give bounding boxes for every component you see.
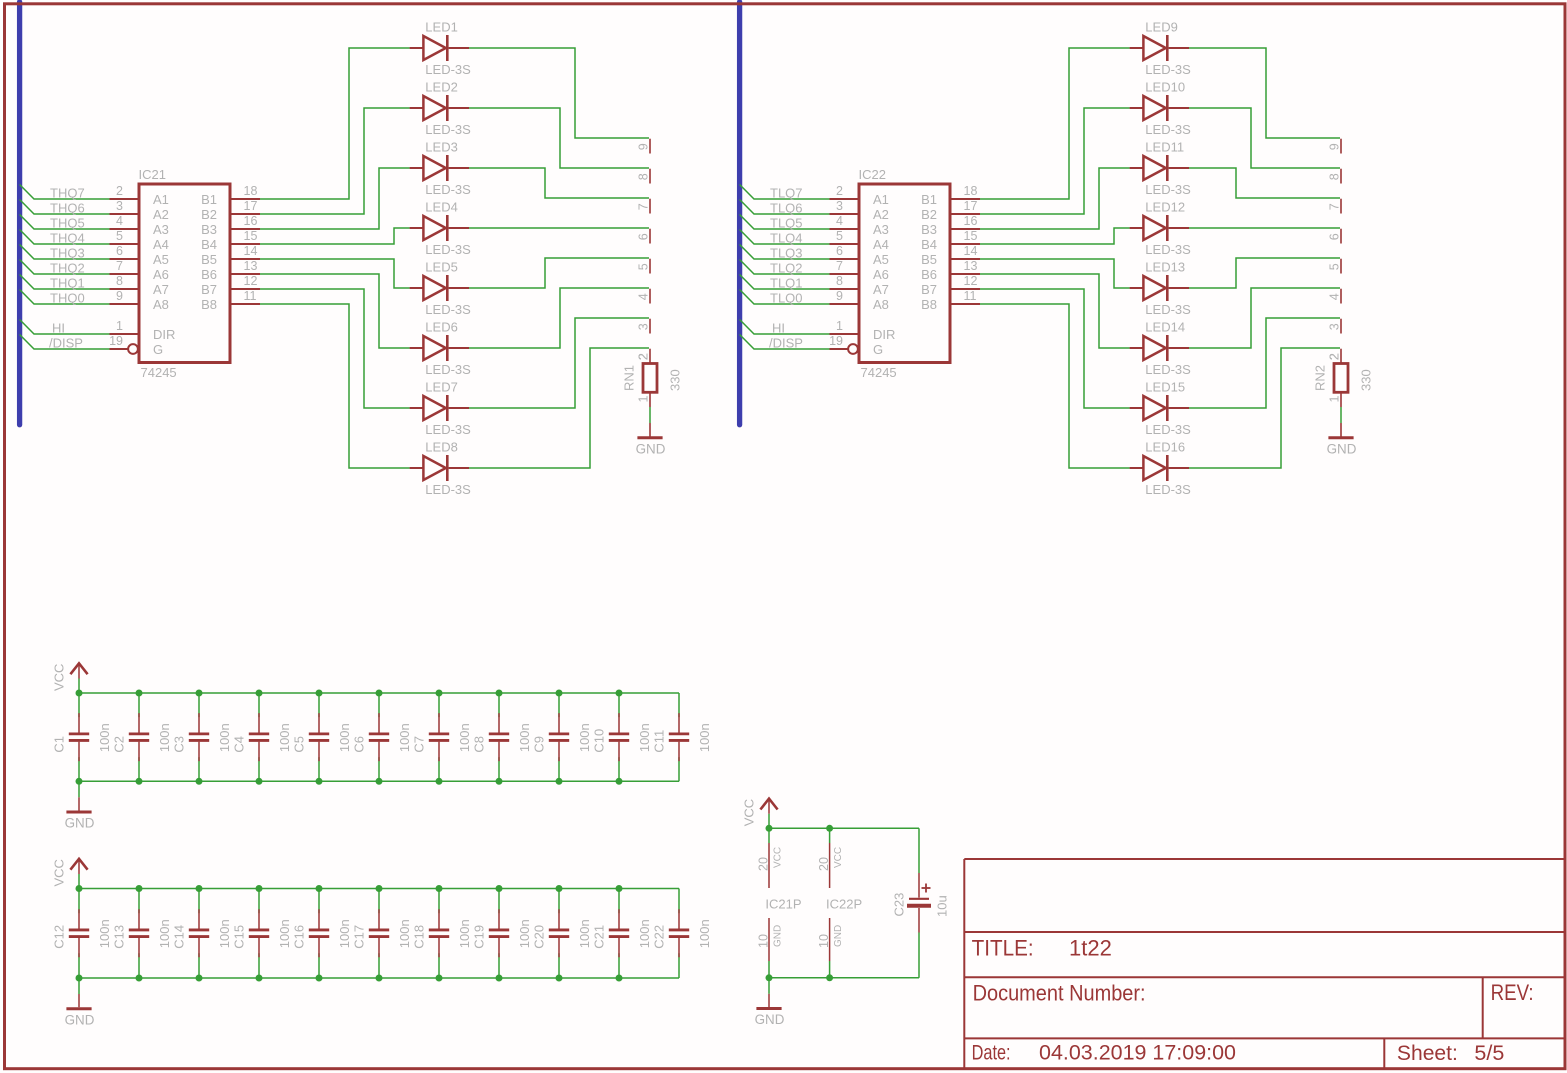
LED diode LED3 (410, 155, 469, 181)
svg-text:5: 5 (1328, 263, 1342, 270)
wire IC21 pin 16 to LED3 anode (260, 168, 410, 229)
svg-text:B6: B6 (201, 267, 217, 282)
svg-text:B1: B1 (921, 192, 937, 207)
svg-text:A6: A6 (153, 267, 169, 282)
ground symbol bank C12 (65, 1009, 95, 1028)
svg-text:18: 18 (244, 184, 258, 198)
ground symbol below RN1 (636, 438, 666, 457)
svg-text:2: 2 (116, 184, 123, 198)
wire leads of capacitor C9 (558, 693, 560, 717)
svg-text:LED3: LED3 (425, 140, 458, 155)
LED diode LED4 (410, 215, 469, 241)
wire IC22 pin 15 to LED12 anode (980, 228, 1130, 244)
svg-text:12: 12 (244, 274, 258, 288)
capacitor C10 100n (609, 713, 629, 761)
svg-text:5: 5 (116, 229, 123, 243)
wire LED9 cathode to RN2 pin 9 (1189, 48, 1340, 138)
svg-text:10: 10 (817, 934, 831, 948)
svg-text:C10: C10 (592, 729, 607, 753)
svg-text:TLQ2: TLQ2 (770, 261, 803, 276)
svg-text:Sheet:: Sheet: (1397, 1041, 1458, 1065)
svg-text:C8: C8 (472, 736, 487, 753)
svg-text:B3: B3 (201, 222, 217, 237)
svg-text:A4: A4 (153, 237, 169, 252)
svg-text:LED-3S: LED-3S (425, 422, 471, 437)
capacitor C18 100n (429, 909, 449, 957)
svg-text:3: 3 (116, 199, 123, 213)
wire net TLQ0 from bus to IC22 pin 9 (740, 290, 830, 305)
svg-text:TLQ7: TLQ7 (770, 186, 803, 201)
svg-text:C9: C9 (532, 736, 547, 753)
wire IC22 pin 16 to LED11 anode (980, 168, 1130, 229)
wire net TLQ3 from bus to IC22 pin 6 (740, 245, 830, 260)
svg-text:LED15: LED15 (1145, 380, 1185, 395)
capacitor C14 100n (189, 909, 209, 957)
wire leads of capacitor C20 (558, 889, 560, 914)
wire net TLQ6 from bus to IC22 pin 3 (740, 200, 830, 215)
wire LED15 cathode to RN2 pin 3 (1189, 318, 1340, 408)
svg-text:10u: 10u (935, 895, 950, 917)
svg-text:B7: B7 (201, 282, 217, 297)
wire IC22 pin 18 to LED9 anode (980, 48, 1130, 199)
wire LED11 cathode to RN2 pin 7 (1189, 168, 1340, 198)
svg-text:4: 4 (637, 293, 651, 300)
svg-text:THQ0: THQ0 (50, 291, 85, 306)
svg-text:B4: B4 (921, 237, 937, 252)
svg-text:VCC: VCC (773, 847, 784, 868)
svg-text:LED-3S: LED-3S (1145, 362, 1191, 377)
svg-text:100n: 100n (397, 919, 412, 948)
wire leads of capacitor C16 (318, 889, 320, 914)
svg-text:15: 15 (244, 229, 258, 243)
svg-text:C11: C11 (652, 730, 667, 753)
wire net THQ3 from bus to IC21 pin 6 (20, 245, 110, 260)
svg-text:B7: B7 (921, 282, 937, 297)
svg-text:LED-3S: LED-3S (1145, 302, 1191, 317)
svg-text:A3: A3 (153, 222, 169, 237)
svg-text:3: 3 (637, 323, 651, 330)
svg-text:100n: 100n (457, 723, 472, 752)
svg-text:7: 7 (637, 203, 651, 210)
svg-text:74245: 74245 (141, 365, 177, 380)
wire IC21 pin 15 to LED4 anode (260, 228, 410, 244)
svg-text:13: 13 (964, 259, 978, 273)
svg-text:100n: 100n (637, 919, 652, 948)
svg-text:B3: B3 (921, 222, 937, 237)
svg-text:GND: GND (773, 925, 784, 947)
wire leads of capacitor C21 (618, 889, 620, 914)
svg-text:7: 7 (1328, 203, 1342, 210)
svg-text:8: 8 (637, 173, 651, 180)
svg-text:LED-3S: LED-3S (1145, 242, 1191, 257)
svg-text:LED10: LED10 (1145, 80, 1185, 95)
svg-text:10: 10 (756, 934, 770, 948)
svg-text:IC22: IC22 (859, 167, 886, 182)
LED diode LED13 (1130, 275, 1189, 301)
svg-text:C20: C20 (532, 925, 547, 949)
svg-text:100n: 100n (577, 723, 592, 752)
svg-text:C3: C3 (172, 736, 187, 753)
capacitor C19 100n (489, 909, 509, 957)
svg-text:100n: 100n (217, 919, 232, 948)
wire LED16 cathode to RN2 pin 2 (1189, 348, 1340, 468)
LED diode LED16 (1130, 455, 1189, 481)
svg-text:/DISP: /DISP (49, 336, 83, 351)
svg-text:8: 8 (836, 274, 843, 288)
LED diode LED9 (1130, 35, 1189, 61)
svg-text:Date:: Date: (972, 1041, 1011, 1065)
capacitor C12 100n (69, 909, 89, 957)
svg-text:LED-3S: LED-3S (1145, 422, 1191, 437)
LED diode LED12 (1130, 215, 1189, 241)
wire leads of capacitor C10 (618, 693, 620, 717)
svg-text:TLQ1: TLQ1 (770, 276, 803, 291)
svg-text:B5: B5 (921, 252, 937, 267)
power VCC symbol bank C12 (51, 859, 87, 889)
LED diode LED7 (410, 395, 469, 421)
capacitor C15 100n (249, 909, 269, 957)
wire leads of capacitor C7 (438, 693, 440, 717)
wire net TLQ1 from bus to IC22 pin 8 (740, 275, 830, 290)
svg-text:B8: B8 (921, 297, 937, 312)
svg-text:GND: GND (65, 816, 95, 831)
capacitor C4 100n (249, 713, 269, 761)
svg-text:GND: GND (833, 925, 844, 947)
svg-text:C1: C1 (52, 736, 67, 753)
svg-text:100n: 100n (337, 919, 352, 948)
svg-text:C5: C5 (292, 736, 307, 753)
svg-text:A8: A8 (153, 297, 169, 312)
svg-text:A5: A5 (873, 252, 889, 267)
svg-text:VCC: VCC (741, 799, 756, 826)
svg-text:1: 1 (116, 319, 123, 333)
svg-text:LED-3S: LED-3S (425, 302, 471, 317)
svg-text:C22: C22 (652, 925, 667, 949)
junction dots top rail (76, 885, 623, 892)
power VCC symbol power section (741, 798, 777, 828)
svg-text:13: 13 (244, 259, 258, 273)
svg-text:17: 17 (964, 199, 978, 213)
svg-text:LED1: LED1 (425, 20, 458, 35)
svg-text:A7: A7 (873, 282, 889, 297)
wire leads of capacitor C3 (198, 693, 200, 717)
svg-text:A2: A2 (873, 207, 889, 222)
capacitor C16 100n (309, 909, 329, 957)
wire LED7 cathode to RN1 pin 3 (469, 318, 649, 408)
svg-text:B6: B6 (921, 267, 937, 282)
bus THQ[0..7] left (17, 2, 22, 425)
svg-text:17: 17 (244, 199, 258, 213)
wire IC22 pin 13 to LED14 anode (980, 274, 1130, 348)
svg-text:TLQ0: TLQ0 (770, 291, 803, 306)
svg-text:20: 20 (756, 857, 770, 871)
svg-text:C7: C7 (412, 736, 427, 753)
LED diode LED5 (410, 275, 469, 301)
svg-text:6: 6 (637, 233, 651, 240)
svg-text:B4: B4 (201, 237, 217, 252)
svg-text:GND: GND (65, 1012, 95, 1027)
IC22 pin names A1-A8 B1-B8 DIR G (873, 192, 937, 357)
svg-text:2: 2 (637, 353, 651, 360)
svg-text:C19: C19 (472, 925, 487, 949)
svg-text:THQ5: THQ5 (50, 216, 85, 231)
svg-text:C13: C13 (112, 925, 127, 949)
svg-text:LED13: LED13 (1145, 260, 1185, 275)
IC22 pin numbers (829, 184, 977, 348)
svg-text:LED7: LED7 (425, 380, 458, 395)
svg-text:14: 14 (244, 244, 258, 258)
wire GND rail bottom of bank C1-C11 (79, 780, 679, 782)
svg-text:1: 1 (1328, 396, 1342, 403)
wire GND rail bottom of bank C12-C22 (79, 977, 679, 979)
wire net THQ1 from bus to IC21 pin 8 (20, 275, 110, 290)
svg-text:LED11: LED11 (1145, 140, 1184, 155)
svg-text:RN1: RN1 (622, 365, 637, 391)
svg-text:LED-3S: LED-3S (425, 482, 471, 497)
wire VCC rail top of bank C12-C22 (79, 888, 679, 890)
svg-text:4: 4 (836, 214, 843, 228)
svg-text:G: G (873, 342, 883, 357)
svg-text:100n: 100n (637, 723, 652, 752)
svg-text:/DISP: /DISP (769, 336, 803, 351)
capacitor C13 100n (129, 909, 149, 957)
wire LED13 cathode to RN2 pin 5 (1189, 258, 1340, 288)
svg-text:LED-3S: LED-3S (1145, 62, 1191, 77)
ground symbol power section (755, 1009, 785, 1028)
svg-text:LED8: LED8 (425, 440, 458, 455)
svg-text:C12: C12 (52, 925, 67, 949)
svg-text:2: 2 (1328, 353, 1342, 360)
svg-text:100n: 100n (577, 919, 592, 948)
svg-text:LED6: LED6 (425, 320, 458, 335)
svg-text:100n: 100n (97, 919, 112, 948)
svg-text:LED-3S: LED-3S (425, 122, 471, 137)
wire leads of capacitor C5 (318, 693, 320, 717)
svg-text:5: 5 (637, 263, 651, 270)
wire net /DISP to IC21 G pin 19 (20, 335, 110, 350)
IC21 pin names A1-A8 B1-B8 DIR G (153, 192, 217, 357)
svg-text:330: 330 (1359, 369, 1374, 391)
svg-text:IC22P: IC22P (826, 897, 862, 912)
svg-text:6: 6 (116, 244, 123, 258)
wire IC21 pin 11 to LED8 anode (260, 304, 410, 468)
svg-text:100n: 100n (217, 723, 232, 752)
svg-text:RN2: RN2 (1313, 365, 1328, 391)
svg-text:100n: 100n (157, 919, 172, 948)
svg-text:IC21P: IC21P (765, 897, 801, 912)
svg-text:9: 9 (637, 143, 651, 150)
power VCC symbol bank C1 (51, 663, 87, 693)
wire IC22 pin 11 to LED16 anode (980, 304, 1130, 468)
svg-text:C15: C15 (232, 925, 247, 949)
svg-text:Document Number:: Document Number: (973, 981, 1146, 1006)
svg-text:1t22: 1t22 (1069, 936, 1112, 961)
wire LED5 cathode to RN1 pin 5 (469, 258, 649, 288)
svg-text:B2: B2 (201, 207, 217, 222)
wire IC22 pin 12 to LED15 anode (980, 289, 1130, 408)
resistor network RN2 pin stubs 9..2 (1328, 139, 1342, 364)
svg-text:9: 9 (116, 289, 123, 303)
LED diode LED8 (410, 455, 469, 481)
wire VCC rail top of bank C1-C11 (79, 692, 679, 694)
IC21 pin numbers (109, 184, 257, 348)
svg-text:100n: 100n (517, 919, 532, 948)
svg-text:GND: GND (755, 1012, 785, 1027)
svg-text:11: 11 (244, 289, 257, 303)
svg-text:LED14: LED14 (1145, 320, 1185, 335)
wire VCC rail power section (769, 827, 919, 829)
svg-text:4: 4 (1328, 293, 1342, 300)
svg-text:6: 6 (1328, 233, 1342, 240)
wire net HI to IC22 DIR pin 1 (740, 320, 830, 335)
svg-text:100n: 100n (517, 723, 532, 752)
svg-text:100n: 100n (277, 723, 292, 752)
svg-text:THQ7: THQ7 (50, 186, 85, 201)
wire LED8 cathode to RN1 pin 2 (469, 348, 649, 468)
capacitor C5 100n (309, 713, 329, 761)
svg-text:100n: 100n (277, 919, 292, 948)
svg-text:100n: 100n (157, 723, 172, 752)
svg-text:TLQ4: TLQ4 (770, 231, 803, 246)
svg-text:LED-3S: LED-3S (425, 362, 471, 377)
svg-text:C21: C21 (592, 925, 607, 949)
junction dots top rail (76, 690, 623, 697)
wire net TLQ7 from bus to IC22 pin 2 (740, 185, 830, 200)
svg-text:A6: A6 (873, 267, 889, 282)
title block (964, 859, 1565, 1069)
svg-text:VCC: VCC (833, 847, 844, 868)
svg-text:74245: 74245 (861, 365, 897, 380)
power gate IC21P of 74245 (768, 828, 770, 978)
wire GND rail power section (769, 977, 919, 979)
junction dots bottom rail (76, 778, 623, 785)
wire leads of capacitor C15 (258, 889, 260, 914)
svg-text:LED16: LED16 (1145, 440, 1185, 455)
wire IC21 pin 12 to LED7 anode (260, 289, 410, 408)
svg-text:1: 1 (836, 319, 843, 333)
IC IC21 74245 (110, 184, 261, 363)
svg-text:9: 9 (836, 289, 843, 303)
svg-text:REV:: REV: (1491, 980, 1534, 1005)
svg-text:LED-3S: LED-3S (1145, 482, 1191, 497)
wire leads of capacitor C13 (138, 889, 140, 914)
wire leads of capacitor C2 (138, 693, 140, 717)
capacitor C7 100n (429, 713, 449, 761)
svg-text:C2: C2 (112, 736, 127, 753)
svg-text:LED5: LED5 (425, 260, 458, 275)
svg-text:100n: 100n (457, 919, 472, 948)
wire IC21 pin 14 to LED5 anode (260, 259, 410, 288)
LED diode LED1 (410, 35, 469, 61)
svg-text:THQ1: THQ1 (50, 276, 85, 291)
ground symbol bank C1 (65, 812, 95, 831)
svg-text:C16: C16 (292, 925, 307, 949)
svg-text:LED9: LED9 (1145, 20, 1178, 35)
svg-text:LED-3S: LED-3S (425, 62, 471, 77)
wire leads of capacitor C22 (678, 889, 680, 914)
svg-text:7: 7 (116, 259, 123, 273)
junction dots bottom rail (76, 975, 623, 982)
svg-text:18: 18 (964, 184, 978, 198)
svg-text:TLQ6: TLQ6 (770, 201, 803, 216)
svg-text:B2: B2 (921, 207, 937, 222)
wire to ground bank C1 (78, 781, 80, 797)
wire leads of capacitor C14 (198, 889, 200, 914)
ground symbol below RN2 (1327, 438, 1357, 457)
wire LED14 cathode to RN2 pin 4 (1189, 288, 1340, 348)
junction dots power rails (766, 825, 834, 982)
power gate IC22P of 74245 (829, 828, 831, 978)
svg-text:100n: 100n (697, 723, 712, 752)
svg-text:GND: GND (636, 442, 666, 457)
svg-text:LED-3S: LED-3S (1145, 182, 1191, 197)
LED diode LED14 (1130, 335, 1189, 361)
wire LED4 cathode to RN1 pin 6 (469, 227, 649, 229)
capacitor C1 100n (69, 713, 89, 761)
svg-text:2: 2 (836, 184, 843, 198)
resistor RN2 330 (1334, 364, 1348, 437)
svg-text:20: 20 (817, 857, 831, 871)
svg-text:THQ4: THQ4 (50, 231, 85, 246)
svg-text:B1: B1 (201, 192, 217, 207)
svg-text:100n: 100n (697, 919, 712, 948)
svg-text:C4: C4 (232, 736, 247, 753)
svg-text:A7: A7 (153, 282, 169, 297)
wire net TLQ4 from bus to IC22 pin 5 (740, 230, 830, 245)
svg-text:100n: 100n (337, 723, 352, 752)
bus TLQ[0..7] right (737, 2, 742, 425)
capacitor C20 100n (549, 909, 569, 957)
svg-text:16: 16 (244, 214, 258, 228)
svg-text:A2: A2 (153, 207, 169, 222)
wire net HI to IC21 DIR pin 1 (20, 320, 110, 335)
svg-text:TLQ3: TLQ3 (770, 246, 803, 261)
wire LED1 cathode to RN1 pin 9 (469, 48, 649, 138)
svg-text:A5: A5 (153, 252, 169, 267)
wire net /DISP to IC22 G pin 19 (740, 335, 830, 350)
svg-text:100n: 100n (397, 723, 412, 752)
wire IC21 pin 13 to LED6 anode (260, 274, 410, 348)
wire net THQ4 from bus to IC21 pin 5 (20, 230, 110, 245)
wire to ground bank C12 (78, 978, 80, 994)
wire net THQ5 from bus to IC21 pin 4 (20, 215, 110, 230)
wire right side C23 branch verticals (918, 828, 920, 873)
svg-text:A4: A4 (873, 237, 889, 252)
wire net THQ6 from bus to IC21 pin 3 (20, 200, 110, 215)
svg-text:B5: B5 (201, 252, 217, 267)
wire LED2 cathode to RN1 pin 8 (469, 108, 649, 168)
wire leads of capacitor C6 (378, 693, 380, 717)
wire IC22 pin 14 to LED13 anode (980, 259, 1130, 288)
svg-text:14: 14 (964, 244, 978, 258)
svg-text:LED4: LED4 (425, 200, 458, 215)
LED diode LED6 (410, 335, 469, 361)
svg-text:3: 3 (1328, 323, 1342, 330)
wire leads of capacitor C18 (438, 889, 440, 914)
svg-text:TITLE:: TITLE: (972, 936, 1034, 961)
svg-text:5: 5 (836, 229, 843, 243)
capacitor C2 100n (129, 713, 149, 761)
LED diode LED11 (1130, 155, 1189, 181)
wire IC21 pin 18 to LED1 anode (260, 48, 410, 199)
wire leads of capacitor C19 (498, 889, 500, 914)
svg-text:LED-3S: LED-3S (425, 182, 471, 197)
svg-text:THQ3: THQ3 (50, 246, 85, 261)
svg-text:HI: HI (52, 321, 65, 336)
svg-text:HI: HI (772, 321, 785, 336)
svg-text:8: 8 (1328, 173, 1342, 180)
LED diode LED15 (1130, 395, 1189, 421)
